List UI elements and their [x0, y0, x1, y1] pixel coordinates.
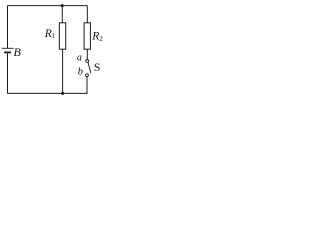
wire: left vertical (below battery): [7, 53, 9, 93]
switch S contact a circle: [86, 60, 89, 63]
svg-text:b: b: [78, 67, 83, 78]
wire: top horizontal: [7, 5, 87, 7]
svg-text:S: S: [94, 60, 101, 74]
resistor R1 body: [59, 23, 65, 49]
switch S contact b circle: [86, 74, 89, 77]
junction node (bottom, R1 branch): [61, 92, 64, 95]
wire: R2 branch top drop: [86, 6, 88, 23]
wire: contact b down to bottom wire: [86, 77, 88, 94]
svg-text:a: a: [77, 53, 82, 64]
resistor R2 body: [84, 23, 90, 49]
wire: left vertical (top of battery): [7, 6, 9, 48]
wire: R2 branch to switch contact a: [86, 49, 88, 59]
switch S open blade: [88, 62, 91, 73]
svg-text:R: R: [91, 31, 99, 43]
junction node (top, R1 branch): [61, 4, 64, 7]
wire: bottom horizontal: [7, 92, 87, 94]
svg-text:B: B: [14, 45, 22, 59]
battery B short thick plate: [4, 51, 11, 53]
wire: R1 branch top drop: [61, 6, 63, 23]
battery B long plate: [2, 47, 14, 49]
svg-text:2: 2: [99, 34, 103, 43]
svg-text:1: 1: [52, 32, 56, 40]
wire: R1 branch bottom drop: [62, 49, 64, 93]
